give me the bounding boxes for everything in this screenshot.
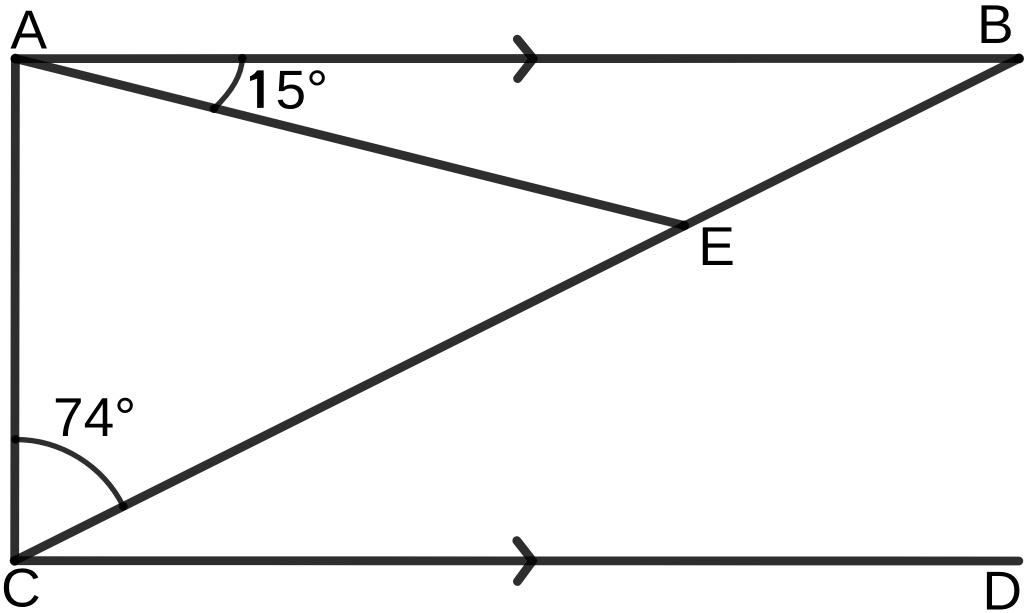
label angle 15 (250, 70, 264, 108)
dot vertex B (1014, 54, 1024, 64)
svg-text:D: D (982, 560, 1022, 613)
svg-text:A: A (10, 0, 47, 61)
svg-text:C: C (1, 556, 41, 613)
dot vertex E (679, 221, 689, 231)
dot arc15 end on AE (210, 104, 219, 113)
dot vertex A (10, 54, 20, 64)
dot arc15 end on AB (238, 54, 247, 63)
wire line CB (15, 59, 1019, 561)
wire line CD (15, 556, 1019, 565)
dot arc74 end on CB (119, 502, 128, 511)
svg-text:74°: 74° (53, 386, 136, 448)
dot vertex C (10, 556, 20, 566)
wire line AC (10, 59, 19, 561)
arrow mark on CD (517, 541, 533, 582)
svg-text:5°: 5° (276, 59, 329, 121)
svg-text:E: E (698, 215, 735, 277)
wire line AE (15, 59, 684, 226)
svg-text:B: B (977, 0, 1014, 55)
dot arc74 end on AC (11, 435, 20, 444)
arc angle 15 at A (214, 58, 242, 108)
wire line AB (15, 54, 1019, 63)
arc angle 74 at C (15, 439, 123, 506)
arrow mark on AB (517, 39, 533, 78)
